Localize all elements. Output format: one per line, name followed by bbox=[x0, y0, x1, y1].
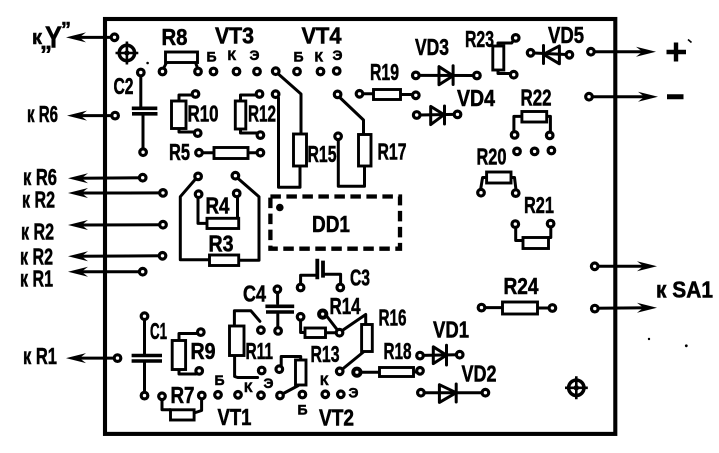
VT3 pad B bbox=[210, 68, 217, 75]
resistor R9 bbox=[172, 334, 197, 375]
R9 bottom pad bbox=[196, 368, 203, 375]
R11 top pad bbox=[258, 327, 265, 334]
resistor R10 bbox=[172, 95, 195, 132]
R22 left pad bbox=[511, 132, 518, 139]
IC DD1 dashed outline bbox=[270, 197, 400, 249]
VT4 pad B bbox=[294, 68, 301, 75]
svg-text:к SA1: к SA1 bbox=[656, 277, 713, 303]
wire k R2 first arrow bbox=[79, 191, 163, 194]
VD1 right pad bbox=[456, 351, 463, 358]
svg-text:R13: R13 bbox=[311, 341, 340, 367]
diode VD5 (pointing left) bbox=[534, 46, 566, 64]
svg-text:C3: C3 bbox=[350, 265, 370, 291]
node k "U" label bbox=[32, 19, 71, 55]
VD1 left pad bbox=[417, 352, 424, 359]
R20 right pad bbox=[512, 190, 519, 197]
node k SA1 (lower) bbox=[595, 306, 645, 309]
svg-text:К: К bbox=[228, 47, 237, 63]
svg-text:Б: Б bbox=[207, 49, 217, 65]
power + symbol bbox=[667, 43, 687, 62]
pad feeding R15 top bbox=[272, 68, 279, 75]
VT3 pad E bbox=[254, 68, 261, 75]
C4 bottom pad bbox=[275, 328, 282, 335]
svg-text:C1: C1 bbox=[150, 318, 167, 344]
svg-text:R16: R16 bbox=[379, 305, 407, 331]
DD1 pin1 dot bbox=[276, 204, 284, 212]
trace around R4 R3 right bbox=[238, 178, 260, 260]
resistor R8 bbox=[164, 52, 198, 69]
mounting hole top-left bbox=[116, 42, 139, 65]
svg-text:R18: R18 bbox=[384, 338, 412, 364]
ink speck right lower bbox=[685, 344, 688, 347]
C4 top pad bbox=[274, 286, 281, 293]
svg-text:к R1: к R1 bbox=[23, 343, 57, 369]
svg-text:R12: R12 bbox=[248, 101, 276, 127]
resistor R14 (horizontal) bbox=[301, 315, 340, 338]
resistor R24 bbox=[485, 302, 549, 314]
pad k R2 (first) bbox=[160, 190, 167, 197]
svg-text:C2: C2 bbox=[114, 73, 134, 99]
R8 left pad bbox=[159, 68, 166, 75]
wire k R1 upper arrow bbox=[79, 270, 143, 273]
R14 top pad (thick) bbox=[319, 311, 326, 318]
svg-text:R4: R4 bbox=[206, 193, 230, 219]
ink speck right area bbox=[648, 338, 650, 340]
svg-text:VT2: VT2 bbox=[319, 405, 354, 431]
VD4 right pad bbox=[454, 111, 461, 118]
R12 bottom pad bbox=[257, 132, 264, 139]
VD3 left pad bbox=[413, 72, 420, 79]
VT1 pad E bbox=[258, 392, 265, 399]
VT1 pad B bbox=[215, 392, 222, 399]
pad k R1 (lower) bbox=[114, 355, 121, 362]
resistor R11 bbox=[230, 311, 260, 378]
R19 left pad bbox=[356, 91, 363, 98]
svg-text:Э: Э bbox=[264, 375, 274, 391]
R12 top pad bbox=[256, 91, 263, 98]
ink speck near mounting hole bbox=[146, 62, 149, 65]
svg-text:R3: R3 bbox=[209, 231, 234, 257]
R4 outer left pad bbox=[195, 173, 202, 180]
R24 left pad bbox=[478, 304, 485, 311]
wire k R6 arrow bbox=[78, 114, 115, 117]
svg-text:R14: R14 bbox=[330, 293, 361, 319]
R4 inner right pad bbox=[233, 190, 240, 197]
R7 left pad bbox=[159, 393, 166, 400]
resistor R16 bbox=[342, 315, 372, 370]
svg-text:VT3: VT3 bbox=[215, 23, 254, 49]
svg-text:R24: R24 bbox=[504, 273, 539, 299]
svg-text:Б: Б bbox=[215, 372, 225, 388]
VT4 pad K bbox=[317, 68, 324, 75]
svg-text:R17: R17 bbox=[378, 139, 407, 165]
mounting hole bottom-right bbox=[565, 376, 588, 399]
svg-text:R20: R20 bbox=[477, 144, 507, 170]
VT1 pad K bbox=[235, 392, 242, 399]
svg-text:Э: Э bbox=[250, 47, 260, 63]
capacitor C4 bbox=[265, 293, 294, 328]
R10 top pad bbox=[192, 91, 199, 98]
R4 outer right pad bbox=[232, 172, 239, 179]
ink speck above plus bbox=[688, 40, 692, 43]
R21 right pad bbox=[547, 220, 554, 227]
svg-text:R23: R23 bbox=[465, 26, 494, 52]
diode VD3 bbox=[419, 66, 474, 85]
C1 top pad bbox=[141, 313, 148, 320]
VD2 right pad bbox=[482, 389, 489, 396]
pad k R6 (upper) bbox=[112, 112, 119, 119]
R9 top pad bbox=[198, 329, 205, 336]
C3 left pad bbox=[297, 284, 304, 291]
R13 feeding pad bbox=[276, 366, 283, 373]
resistor R5 bbox=[203, 148, 258, 159]
svg-text:R5: R5 bbox=[169, 139, 190, 165]
svg-text:VD1: VD1 bbox=[433, 317, 469, 343]
VD5 right pad bbox=[566, 52, 573, 59]
wire k R2 third arrow bbox=[79, 254, 163, 257]
R7 right pad bbox=[199, 392, 206, 399]
diode VD2 bbox=[424, 384, 482, 402]
C2 bottom pad bbox=[140, 149, 147, 156]
VT3 pad K bbox=[233, 68, 240, 75]
pad k R2 (second) bbox=[160, 221, 167, 228]
pad + bbox=[588, 48, 595, 55]
pad k R6 (lower) bbox=[139, 174, 146, 181]
svg-text:VT1: VT1 bbox=[218, 404, 252, 430]
pad feeding R15 bottom bbox=[272, 91, 279, 98]
VT4 pad E bbox=[333, 68, 340, 75]
svg-text:R21: R21 bbox=[524, 192, 554, 218]
svg-text:VT4: VT4 bbox=[302, 23, 342, 49]
resistor R7 bbox=[162, 399, 202, 421]
R24 right pad bbox=[549, 305, 556, 312]
svg-text:R15: R15 bbox=[308, 141, 337, 167]
wire k R2 second arrow bbox=[79, 223, 163, 226]
R16 bottom pad bbox=[336, 368, 343, 375]
R5 left pad bbox=[196, 149, 203, 156]
C3 right pad bbox=[337, 284, 344, 291]
svg-text:R22: R22 bbox=[521, 85, 552, 111]
R20 left pad bbox=[478, 189, 485, 196]
resistor R13 (vertical) bbox=[281, 357, 306, 395]
R23 bottom pad bbox=[510, 71, 517, 78]
svg-text:R9: R9 bbox=[191, 338, 216, 364]
pad - bbox=[586, 93, 593, 100]
pad k SA1 lower bbox=[592, 305, 599, 312]
svg-text:R10: R10 bbox=[188, 101, 219, 127]
R22 right pad bbox=[546, 132, 553, 139]
svg-text:к R2: к R2 bbox=[21, 219, 54, 245]
R18 right pad bbox=[417, 368, 424, 375]
svg-text:Э: Э bbox=[333, 47, 343, 63]
svg-text:DD1: DD1 bbox=[312, 211, 350, 237]
resistor R4 bbox=[198, 197, 239, 229]
resistor R23 bbox=[493, 40, 514, 74]
R8 right pad bbox=[195, 68, 202, 75]
resistor R19 bbox=[363, 90, 413, 100]
svg-text:к R6: к R6 bbox=[27, 101, 58, 127]
VT2 pad B bbox=[299, 391, 306, 398]
R4 inner left pad bbox=[195, 191, 202, 198]
free pad row pad 2 bbox=[531, 148, 538, 155]
capacitor C3 bbox=[301, 259, 341, 284]
resistor R18 bbox=[360, 368, 420, 377]
wire k R6 lower arrow bbox=[79, 176, 143, 180]
C1 bottom pad bbox=[141, 392, 148, 399]
wire k "U" arrow bbox=[77, 36, 115, 39]
board outline bbox=[105, 19, 615, 434]
svg-text:VD3: VD3 bbox=[415, 34, 449, 60]
capacitor C2 bbox=[132, 76, 158, 149]
resistor R15 with traces bbox=[278, 74, 307, 188]
R13 bottom pad bbox=[277, 392, 284, 399]
trace around R4 R3 left bbox=[180, 179, 209, 260]
pad k R2 (third) bbox=[159, 253, 166, 260]
svg-text:R11: R11 bbox=[246, 338, 274, 364]
svg-text:Э: Э bbox=[349, 385, 359, 401]
svg-text:VD5: VD5 bbox=[548, 22, 584, 48]
resistor R21 bbox=[516, 227, 551, 249]
pad k "U" bbox=[111, 34, 118, 41]
svg-text:К: К bbox=[315, 49, 324, 65]
VD4 left pad bbox=[413, 112, 420, 119]
node + output bbox=[591, 50, 644, 53]
VD2 left pad bbox=[418, 389, 425, 396]
resistor R17 with traces bbox=[338, 98, 371, 187]
svg-text:R19: R19 bbox=[370, 59, 399, 85]
junction pad right of R14 bbox=[336, 329, 343, 336]
svg-text:Y: Y bbox=[45, 20, 62, 55]
svg-text:VD2: VD2 bbox=[462, 361, 497, 387]
resistor R20 bbox=[481, 172, 516, 190]
R21 left pad bbox=[512, 221, 519, 228]
svg-text:Б: Б bbox=[298, 402, 308, 418]
svg-text:К: К bbox=[320, 372, 329, 388]
diode VD1 bbox=[423, 345, 457, 365]
svg-text:К: К bbox=[244, 379, 253, 395]
VT2 pad K bbox=[322, 391, 329, 398]
capacitor C1 bbox=[132, 320, 162, 393]
pad k R1 (upper) bbox=[139, 268, 146, 275]
resistor R3 bbox=[210, 255, 239, 266]
pad feeding R17 bottom bbox=[335, 133, 342, 140]
pad k SA1 upper bbox=[591, 263, 598, 270]
R11 bottom pad bbox=[258, 367, 265, 374]
R23 top pad bbox=[512, 35, 519, 42]
pad feeding R17 top bbox=[334, 91, 341, 98]
svg-text:VD4: VD4 bbox=[457, 85, 495, 111]
R10 bottom pad bbox=[194, 130, 201, 137]
R18 left pad (thick) bbox=[353, 369, 360, 376]
svg-text:к R2: к R2 bbox=[22, 187, 55, 213]
VT2 pad E bbox=[338, 391, 345, 398]
resistor R12 bbox=[235, 95, 256, 133]
diode VD4 bbox=[420, 106, 455, 125]
node k SA1 (upper) bbox=[595, 265, 645, 268]
wire k R1 lower arrow bbox=[77, 357, 118, 360]
C2 top pad bbox=[138, 69, 145, 76]
svg-text:R8: R8 bbox=[162, 24, 188, 50]
svg-text:Б: Б bbox=[294, 49, 304, 65]
R19 right pad bbox=[413, 92, 420, 99]
R14 left pad bbox=[297, 314, 304, 321]
free pad row pad 3 bbox=[548, 147, 555, 154]
free pad row pad 1 bbox=[514, 148, 521, 155]
VD5 left pad bbox=[527, 50, 534, 57]
resistor R22 bbox=[514, 112, 551, 132]
node - output bbox=[589, 95, 646, 98]
svg-text:R7: R7 bbox=[171, 382, 195, 408]
svg-text:C4: C4 bbox=[243, 281, 266, 307]
R5 right pad bbox=[257, 149, 264, 156]
VD3 right pad bbox=[474, 72, 481, 79]
power - symbol bbox=[667, 94, 684, 99]
svg-text:к R1: к R1 bbox=[20, 266, 53, 292]
